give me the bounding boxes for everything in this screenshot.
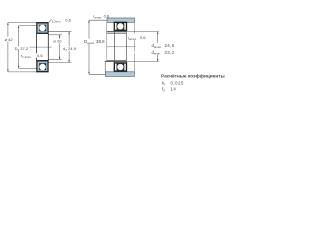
svg-text:24,5: 24,5 (165, 43, 175, 48)
shoulder line top (da extension) (107, 31, 127, 33)
svg-text:0,6: 0,6 (65, 18, 71, 23)
frame vertical left (106, 22, 108, 61)
dimension D2 37,2: extension lines (19, 25, 37, 27)
svg-text:0,6: 0,6 (104, 14, 110, 19)
centerline (bore axis) (30, 46, 52, 48)
svg-text:Damax: Damax (84, 39, 95, 45)
inner ring side faces (vertical lines between sections) (36, 34, 38, 54)
dimension d2 24,9: dimension line (68, 32, 70, 47)
dimension d 20: dimension line (59, 35, 61, 39)
svg-text:⌀ 20: ⌀ 20 (53, 39, 62, 44)
bottom bearing section (37, 60, 49, 72)
svg-text:23,2: 23,2 (165, 50, 175, 55)
shaft section (bottom blue strip) (105, 72, 134, 77)
svg-text:Расчётные коэффициенты: Расчётные коэффициенты (161, 72, 225, 79)
svg-text:r1,2min: r1,2min (50, 18, 60, 24)
svg-text:damax: damax (152, 43, 162, 49)
dimension D 42: dimension line (7, 23, 9, 37)
bottom bearing section (mounted) (114, 63, 127, 72)
dimension d 20: extension lines (48, 34, 62, 36)
leader r12 top (49, 21, 50, 23)
dimension da: dimension line (157, 32, 159, 43)
shaft step vertical left (104, 61, 106, 71)
ring side faces between sections (113, 31, 115, 63)
svg-text:0,6: 0,6 (37, 53, 43, 58)
shaft seat line top (107, 32, 127, 34)
svg-text:r1,2min: r1,2min (21, 53, 31, 59)
svg-text:f0: f0 (162, 87, 165, 93)
top bearing section (37, 22, 49, 33)
svg-text:0,6: 0,6 (140, 35, 146, 40)
svg-text:ramax: ramax (128, 35, 137, 41)
svg-text:damin: damin (152, 50, 161, 56)
svg-text:14: 14 (171, 87, 177, 92)
dimension Da max: dimension line (88, 20, 90, 39)
svg-text:ramax: ramax (93, 14, 102, 20)
frame vertical right (133, 22, 135, 33)
dimension Da max: extension lines (89, 19, 107, 21)
shoulder line bottom (da extension) (105, 60, 127, 62)
dimension D 42: extension lines (8, 22, 37, 24)
svg-text:0,025: 0,025 (171, 80, 184, 85)
top bearing section (mounted) (114, 22, 127, 31)
svg-text:⌀ 42: ⌀ 42 (5, 37, 14, 42)
dimension D2 37,2: dimension line (18, 26, 20, 47)
svg-text:d2 24,9: d2 24,9 (63, 46, 77, 52)
housing section (top blue strip) (107, 18, 134, 22)
dimension d2 24,9: extension lines (48, 31, 71, 33)
svg-text:38,8: 38,8 (96, 39, 105, 44)
svg-text:kr: kr (162, 80, 165, 86)
svg-text:D2 37,2: D2 37,2 (15, 46, 29, 52)
shaft seat line bottom (107, 60, 127, 62)
centerline axis (107, 46, 135, 48)
